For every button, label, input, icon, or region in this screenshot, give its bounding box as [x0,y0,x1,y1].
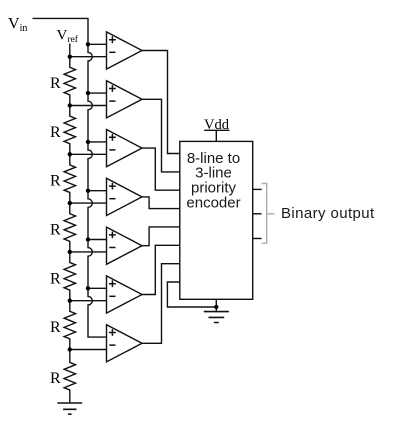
svg-text:R: R [50,173,61,190]
resistor R (ladder segment 6) [64,301,75,350]
junction dot at encoder ground node [214,305,218,309]
wire Vin branch to comparator 2 + input [88,92,107,94]
op-amp comparator 7 [107,325,143,362]
wire ladder tap to comparator 1 - input [70,56,107,58]
ground symbol below encoder [204,312,229,323]
svg-text:R: R [50,75,61,92]
resistor R (ladder segment 2) [64,106,75,155]
resistor R (ladder segment 5) [64,252,75,301]
junction dot on ladder tap 4 [68,201,72,205]
junction dot on Vin bus at comparator 1 + branch [86,42,90,46]
op-amp comparator 2 [107,81,143,118]
wire ladder tap to comparator 7 - input [70,349,107,351]
wire ladder tap to comparator 2 - input [70,105,107,107]
junction dot on Vin bus at comparator 5 + branch [86,237,90,241]
junction dot on ladder tap 1 [68,55,72,59]
junction dot on ladder tap 3 [68,152,72,156]
wire Vref to ladder top [69,44,71,57]
wire comparator 4 output to encoder input 4 [142,197,180,209]
wire comparator 7 output to encoder input 7 [142,264,180,344]
wire encoder ground pin [215,299,217,311]
junction dot on ladder tap 7 [68,347,72,351]
op-amp comparator 6 [107,276,143,313]
junction dot on Vin bus at comparator 4 + branch [86,189,90,193]
wire comparator 1 output to encoder input 1 [142,51,180,154]
junction dot on Vin bus at comparator 6 + branch [86,286,90,290]
op-amp comparator 4 [107,178,143,215]
wire ladder tap to comparator 6 - input [70,300,107,302]
wire Vin branch to comparator 5 + input [88,239,107,241]
wire Vin branch to comparator 4 + input [88,190,107,192]
encoder U1 (8-line to 3-line priority encoder) outline [180,141,253,299]
wire comparator 3 output to encoder input 3 [142,148,180,190]
junction dot on Vin bus at comparator 2 + branch [86,91,90,95]
wire encoder output stub 2 [253,213,262,215]
power symbol Vdd rail bar [204,129,229,131]
op-amp comparator 1 [107,32,143,69]
wire comparator 5 output to encoder input 5 [142,227,180,246]
resistor R (ladder segment 4) [64,203,75,252]
wire Vin (top run, vertical bus with crossover hops, to comparator 7 + input) [33,18,107,337]
ground symbol at ladder bottom [57,403,82,414]
wire encoder input 8 tied to ground node [167,282,216,307]
svg-text:8-line to3-linepriorityencoder: 8-line to3-linepriorityencoder [186,150,240,212]
junction dot on ladder tap 5 [68,250,72,254]
resistor R (ladder segment 7) [64,350,75,404]
resistor R (ladder segment 3) [64,154,75,203]
wire Vin branch to comparator 3 + input [88,141,107,143]
resistor R (ladder segment 1) [64,57,75,106]
svg-text:R: R [50,370,61,387]
svg-text:Binary output: Binary output [281,205,375,222]
svg-text:R: R [50,270,61,287]
junction dot on ladder tap 6 [68,299,72,303]
op-amp comparator 3 [107,130,143,167]
wire ladder tap to comparator 5 - input [70,251,107,253]
wire encoder output stub 1 [253,188,262,190]
op-amp comparator 5 [107,227,143,264]
svg-text:R: R [50,124,61,141]
wire encoder output stub 3 [253,238,262,240]
junction dot on ladder tap 2 [68,103,72,107]
junction dot on Vin bus at comparator 3 + branch [86,140,90,144]
wire ladder tap to comparator 4 - input [70,202,107,204]
wire Vdd pin to encoder top [215,130,217,141]
svg-text:R: R [50,319,61,336]
bracket grouping binary outputs [262,184,275,244]
wire comparator 6 output to encoder input 6 [142,245,180,294]
wire ladder tap to comparator 3 - input [70,153,107,155]
wire Vin branch to comparator 6 + input [88,287,107,289]
wire comparator 2 output to encoder input 2 [142,99,180,172]
wire Vin branch to comparator 1 + input [88,43,107,45]
svg-text:R: R [50,222,61,239]
